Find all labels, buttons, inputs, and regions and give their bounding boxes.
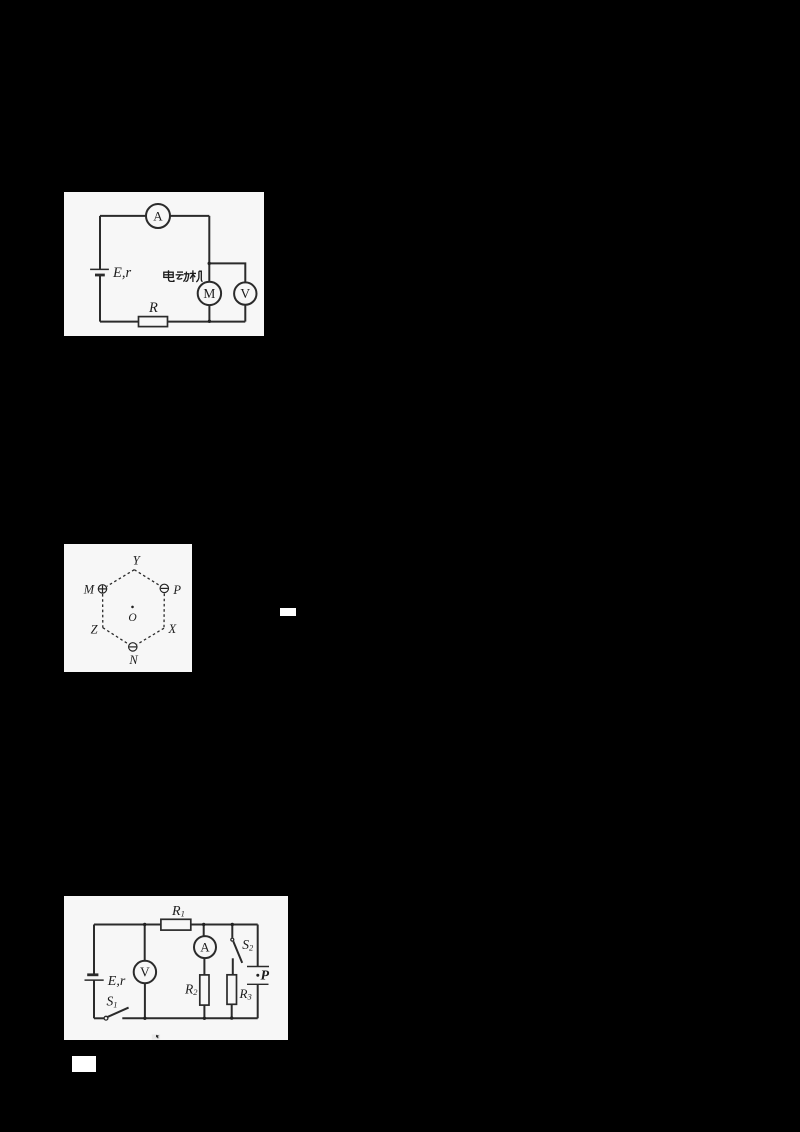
voltmeter branch wire top bbox=[144, 924, 146, 960]
svg-text:M: M bbox=[83, 582, 95, 596]
battery E,r bbox=[90, 269, 109, 275]
wire right upper bbox=[257, 924, 259, 966]
node top A bbox=[202, 922, 205, 925]
wire top right of R1 bbox=[191, 923, 258, 925]
svg-text:V: V bbox=[240, 286, 250, 301]
wire top bbox=[94, 923, 161, 925]
wire S2 to R3 bbox=[232, 958, 234, 975]
svg-text:E,r: E,r bbox=[107, 974, 126, 989]
node junction bottom bbox=[208, 319, 211, 322]
node bottom R2 bbox=[203, 1016, 206, 1019]
wire voltmeter bottom bbox=[244, 304, 246, 321]
svg-text:X: X bbox=[167, 622, 177, 636]
svg-text:A: A bbox=[153, 208, 163, 223]
wire hexagon edge Y-P bbox=[134, 569, 160, 585]
wire top right bbox=[170, 215, 209, 217]
resistor R bbox=[139, 316, 168, 326]
电 bbox=[164, 270, 174, 281]
svg-text:A: A bbox=[200, 939, 210, 954]
switch S2 wire top bbox=[231, 924, 233, 937]
svg-text:S2: S2 bbox=[242, 937, 254, 953]
ammeter branch wire top bbox=[203, 924, 205, 936]
wire right lower bbox=[257, 984, 259, 1018]
svg-text:Y: Y bbox=[133, 553, 142, 567]
switch S2 pivot bbox=[231, 938, 234, 941]
node O center dot bbox=[131, 605, 134, 608]
node top S2 bbox=[231, 922, 234, 925]
wire left lower bbox=[93, 980, 95, 1018]
svg-text:V: V bbox=[140, 964, 150, 979]
node top V bbox=[143, 922, 146, 925]
wire right bbox=[208, 216, 210, 282]
wire bottom left bbox=[100, 320, 138, 322]
svg-text:O: O bbox=[128, 612, 137, 624]
resistor R2 bbox=[200, 975, 209, 1005]
ammeter A1 bbox=[146, 204, 170, 228]
panel 3: two-switch circuit figure bbox=[64, 896, 288, 1040]
wire R3 bottom bbox=[231, 1004, 233, 1018]
wire parallel branch top bbox=[209, 263, 245, 282]
wire left upper bbox=[99, 216, 101, 269]
panel 1: motor circuit figure bbox=[64, 192, 264, 336]
battery E,r bbox=[85, 974, 104, 979]
wire hexagon edge Y-M bbox=[107, 569, 134, 586]
wire hexagon edge P-X bbox=[163, 593, 165, 628]
svg-text:R2: R2 bbox=[184, 981, 198, 997]
switch S2 blade bbox=[233, 941, 242, 963]
ammeter A2 bbox=[194, 936, 216, 958]
svg-text:P: P bbox=[261, 968, 270, 983]
svg-text:R: R bbox=[148, 300, 158, 316]
voltmeter branch wire bottom bbox=[144, 983, 146, 1018]
switch S1 pivot bbox=[104, 1016, 108, 1020]
white dash right of panel 2 bbox=[280, 608, 296, 616]
svg-text:E,r: E,r bbox=[112, 265, 131, 281]
wire hexagon edge X-N bbox=[137, 628, 164, 644]
resistor R1 bbox=[161, 919, 191, 930]
node bottom R3 bbox=[230, 1016, 233, 1019]
charge N (minus) bbox=[129, 642, 137, 650]
charge M (plus) bbox=[98, 584, 106, 592]
svg-text:S1: S1 bbox=[107, 993, 118, 1009]
node junction right top bbox=[207, 261, 210, 264]
voltmeter V1 bbox=[234, 282, 256, 304]
charge P (minus) bbox=[160, 584, 168, 592]
smudge artifact cursor box bbox=[152, 1034, 160, 1039]
label 电动机 (drawn strokes) bbox=[164, 270, 203, 282]
wire left upper bbox=[93, 924, 95, 974]
voltmeter V2 bbox=[134, 960, 156, 982]
wire motor bottom bbox=[208, 305, 210, 321]
wire bottom to switch bbox=[94, 1017, 104, 1019]
wire left lower bbox=[99, 275, 101, 322]
capacitor plate bottom bbox=[247, 983, 269, 985]
机 bbox=[190, 270, 203, 282]
switch S1 blade bbox=[108, 1007, 129, 1016]
svg-text:Z: Z bbox=[91, 622, 99, 636]
wire top left bbox=[100, 215, 146, 217]
motor M1 bbox=[198, 281, 221, 304]
svg-text:P: P bbox=[172, 583, 181, 597]
wire bottom right bbox=[167, 320, 245, 322]
node point P dot bbox=[256, 973, 259, 976]
white rect bottom left bbox=[72, 1056, 96, 1073]
svg-text:R1: R1 bbox=[171, 903, 185, 918]
svg-text:R3: R3 bbox=[239, 986, 252, 1002]
wire hexagon edge M-Z bbox=[102, 594, 104, 628]
resistor R3 bbox=[227, 974, 237, 1004]
capacitor plate top bbox=[247, 965, 269, 967]
动 bbox=[176, 271, 189, 281]
wire R2 bottom bbox=[203, 1005, 205, 1018]
wire bottom bbox=[122, 1017, 257, 1019]
svg-text:M: M bbox=[203, 286, 215, 301]
svg-text:N: N bbox=[128, 653, 138, 667]
wire hexagon edge Z-N bbox=[103, 627, 129, 643]
panel 2: hexagon charges figure bbox=[64, 544, 192, 672]
node bottom V bbox=[143, 1016, 146, 1019]
wire ammeter to R2 bbox=[203, 958, 205, 975]
